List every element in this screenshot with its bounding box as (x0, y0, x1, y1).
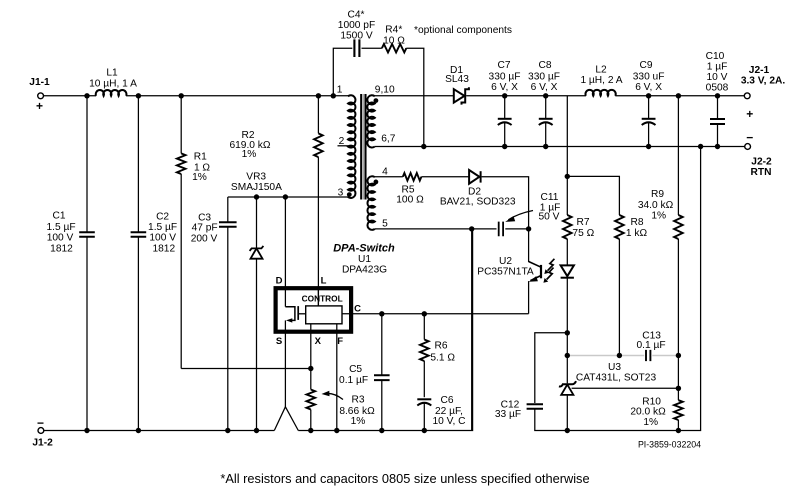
terminal J2-1 (741, 65, 786, 121)
capacitor C12 (495, 400, 567, 431)
phase dot pin 3 (347, 192, 352, 197)
transformer secondary winding pins 9-10 to 6-7 (367, 95, 374, 147)
junction pin3 D pin (283, 194, 288, 199)
junction U3 anode rail (565, 428, 570, 433)
junction C8 bottom (543, 144, 548, 149)
pin label L (321, 276, 327, 287)
junction R3 bottom (308, 428, 313, 433)
wire C pin (342, 313, 529, 315)
svg-text:5: 5 (382, 218, 388, 229)
terminal J1-2 (32, 416, 53, 449)
junction top rail R2 (316, 93, 321, 98)
svg-text:*optional components: *optional components (414, 25, 512, 36)
wire R8 branch (567, 176, 619, 215)
svg-text:C6: C6 (440, 395, 453, 406)
junction pin5 primary return (469, 226, 474, 231)
wire U3 ref (572, 387, 679, 389)
mosfet U1 internal (285, 306, 305, 332)
pin label X (315, 336, 322, 347)
capacitor C3 (191, 197, 237, 431)
svg-text:33 µF: 33 µF (495, 409, 521, 420)
capacitor C7 (489, 60, 521, 147)
wire R4 to 6-7 rail (406, 48, 424, 146)
wire primary ground rail left (44, 430, 274, 432)
transformer core (361, 94, 365, 200)
capacitor C8 (528, 60, 560, 147)
svg-text:SMAJ150A: SMAJ150A (231, 182, 282, 193)
svg-text:U1: U1 (358, 254, 371, 265)
wire R7 to opto LED (566, 239, 568, 265)
junction R9 C13 (676, 353, 681, 358)
junction R6 top (422, 311, 427, 316)
junction C9 bottom (646, 144, 651, 149)
svg-text:1.5 µF: 1.5 µF (46, 222, 75, 233)
svg-text:SL43: SL43 (445, 74, 469, 85)
svg-text:3: 3 (338, 187, 344, 198)
wire top rail J1-1 to L1 (44, 95, 97, 97)
svg-text:1000 pF: 1000 pF (338, 20, 375, 31)
wire S pin (284, 332, 286, 407)
opto light arrows (543, 259, 554, 283)
svg-text:VR3: VR3 (246, 171, 266, 182)
resistor R1 (177, 96, 211, 369)
svg-text:C8: C8 (538, 60, 551, 71)
svg-text:PI-3859-032204: PI-3859-032204 (638, 440, 701, 450)
pin label F (337, 336, 343, 347)
phase dot secondary (374, 98, 379, 103)
svg-text:3.3 V, 2A.: 3.3 V, 2A. (741, 76, 786, 87)
svg-text:C10: C10 (706, 51, 725, 62)
capacitor C5 (339, 314, 390, 431)
svg-text:X: X (315, 336, 322, 347)
svg-text:R9: R9 (651, 189, 664, 200)
svg-text:1812: 1812 (50, 243, 73, 254)
optocoupler U2 phototransistor (477, 229, 541, 314)
junction R8 bottom (617, 239, 622, 358)
wire F pin (336, 324, 338, 431)
svg-text:S: S (276, 336, 282, 347)
svg-text:C4*: C4* (348, 10, 365, 21)
junction pin3 VR3 (254, 194, 259, 199)
svg-text:1 kΩ: 1 kΩ (626, 228, 648, 239)
junction top rail R1 (179, 93, 184, 98)
svg-text:6 V, X: 6 V, X (531, 82, 558, 93)
svg-text:0.1 µF: 0.1 µF (636, 340, 665, 351)
resistor R8 (615, 215, 647, 239)
capacitor C13 (636, 330, 665, 361)
svg-text:C11: C11 (541, 192, 559, 203)
svg-text:10 V: 10 V (707, 72, 728, 83)
pin label D (276, 276, 283, 287)
svg-text:C: C (354, 304, 361, 315)
terminal J1-1 (29, 77, 50, 113)
control block U1 (302, 293, 343, 323)
svg-text:C5: C5 (349, 364, 362, 375)
svg-text:75 Ω: 75 Ω (572, 228, 594, 239)
svg-text:1%: 1% (242, 149, 257, 160)
svg-text:10 V, C: 10 V, C (432, 416, 465, 427)
resistor R4 (362, 25, 407, 53)
pin label 9,10 (375, 84, 395, 95)
svg-text:1500 V: 1500 V (340, 31, 372, 42)
wire X pin feed (181, 368, 311, 370)
svg-text:0508: 0508 (706, 82, 729, 93)
svg-text:J1-2: J1-2 (32, 438, 53, 449)
junction C12 node (565, 330, 570, 335)
svg-text:DPA-Switch: DPA-Switch (333, 243, 395, 255)
wire D2 to C11 node (482, 177, 529, 229)
junction C9 top (646, 93, 651, 98)
terminal J2-2 (745, 130, 772, 178)
svg-text:−: − (37, 416, 44, 430)
svg-text:D: D (276, 276, 283, 287)
resistor R7 (563, 176, 595, 239)
junction C11 D2 node (526, 226, 531, 231)
capacitor C2 (131, 96, 178, 431)
wire X pin (310, 324, 312, 369)
svg-text:C1: C1 (52, 211, 65, 222)
svg-text:1 µH, 2 A: 1 µH, 2 A (580, 75, 622, 86)
svg-text:47 pF: 47 pF (192, 223, 218, 234)
junction C10 bottom (715, 144, 720, 149)
svg-text:R4*: R4* (385, 25, 402, 36)
capacitor C11 (499, 192, 561, 236)
svg-text:100 Ω: 100 Ω (396, 195, 424, 206)
svg-text:1%: 1% (643, 417, 658, 428)
wire D pin (284, 197, 286, 307)
diode D1 SL43 (445, 65, 469, 105)
svg-text:C9: C9 (639, 60, 652, 71)
svg-text:R8: R8 (630, 217, 643, 228)
pin label 2 (338, 136, 349, 147)
junction C5 bottom (379, 428, 384, 433)
svg-text:L2: L2 (595, 65, 607, 76)
svg-text:100 V: 100 V (47, 233, 74, 244)
junction C1 bottom (84, 428, 89, 433)
svg-text:10 Ω: 10 Ω (383, 36, 405, 47)
wire secondary ground rail (567, 147, 700, 431)
svg-text:330 µF: 330 µF (489, 71, 521, 82)
wire U3 anode (566, 395, 568, 431)
capacitor C6 (417, 395, 465, 430)
pin label 5 (382, 218, 388, 229)
opto LED U2 (561, 265, 574, 277)
capacitor C1 (46, 96, 94, 431)
svg-text:6 V, X: 6 V, X (491, 82, 518, 93)
junction C5 top (379, 311, 384, 316)
resistor R5 (396, 173, 424, 206)
svg-text:J2-1: J2-1 (749, 65, 770, 76)
source return peak (274, 407, 298, 431)
svg-text:200 V: 200 V (191, 233, 218, 244)
svg-text:D2: D2 (468, 186, 481, 197)
note footer (220, 471, 589, 486)
resistor R6 (420, 314, 455, 397)
wire LED node to C13 node (566, 333, 568, 356)
svg-text:L: L (321, 276, 327, 287)
resistor R10 (630, 388, 682, 430)
svg-text:1: 1 (337, 84, 343, 95)
svg-text:330 µF: 330 µF (528, 71, 560, 82)
wire C13 link (567, 355, 678, 357)
junction top rail C2 (136, 93, 141, 98)
svg-text:R3: R3 (351, 394, 364, 405)
wire C13 node to U3 (566, 356, 568, 384)
wire pin 5 to C11 (375, 228, 497, 230)
junction X node (308, 366, 313, 371)
label PI number (638, 440, 701, 450)
svg-text:R5: R5 (401, 184, 414, 195)
wire bias return (471, 229, 473, 431)
svg-text:1 µF: 1 µF (707, 61, 728, 72)
svg-text:5.1 Ω: 5.1 Ω (430, 353, 455, 364)
svg-text:1812: 1812 (152, 243, 175, 254)
junction VR3 bottom (254, 428, 259, 433)
svg-text:R7: R7 (576, 217, 589, 228)
pin label S (276, 336, 282, 347)
junction top rail C4 branch (331, 93, 336, 98)
phase dot bias (374, 180, 379, 185)
note optional components (414, 25, 512, 36)
diode D2 BAV21 (440, 170, 516, 208)
svg-text:6 V, X: 6 V, X (635, 82, 662, 93)
junction RTN to feedback ground (698, 144, 703, 149)
wire pin3 node (228, 196, 349, 198)
capacitor C4 (333, 10, 375, 96)
svg-text:CONTROL: CONTROL (302, 293, 343, 303)
wire pin 4 to R5 (375, 176, 403, 178)
wire 6-7 rail (375, 146, 745, 148)
svg-text:0.1 µF: 0.1 µF (339, 375, 368, 386)
wire top rail L1 to transformer pin 1 (126, 95, 348, 97)
svg-text:R1: R1 (194, 152, 207, 163)
junction R10 bottom (676, 428, 681, 433)
shunt regulator U3 CAT431L (559, 362, 657, 395)
inductor L1 (89, 68, 137, 96)
svg-text:L1: L1 (106, 68, 118, 79)
svg-text:CAT431L, SOT23: CAT431L, SOT23 (576, 372, 657, 383)
svg-text:1%: 1% (192, 172, 207, 183)
pin label 4 (382, 166, 388, 177)
zener VR3 SMAJ150A (231, 171, 282, 430)
ic U1 DPA423G outline (276, 243, 395, 332)
junction ref R10 (676, 386, 681, 391)
svg-text:+: + (36, 99, 43, 113)
wire primary ground rail right (298, 229, 472, 431)
junction C10 top (715, 93, 720, 98)
pin label 1 (337, 84, 343, 95)
wire R5 to D2 (421, 176, 469, 178)
transformer primary winding pins 1-3 (348, 95, 355, 198)
svg-text:DPA423G: DPA423G (342, 265, 387, 276)
svg-text:+: + (746, 107, 753, 121)
svg-text:6,7: 6,7 (381, 134, 395, 145)
junction C7 top (502, 93, 507, 98)
svg-text:C7: C7 (497, 60, 510, 71)
inductor L2 (580, 65, 622, 96)
svg-text:R6: R6 (434, 340, 447, 351)
resistor R9 (638, 96, 683, 389)
junction F bottom (334, 428, 339, 433)
wire L2 to J2-1 (615, 95, 744, 97)
svg-text:F: F (337, 336, 343, 347)
junction R7 R8 node (565, 174, 570, 179)
svg-text:9,10: 9,10 (375, 84, 395, 95)
svg-text:J1-1: J1-1 (29, 77, 50, 88)
wire 9-10 to D1 (375, 95, 454, 97)
pin label 6,7 (381, 134, 395, 145)
wire opto LED to C12 node (566, 278, 568, 333)
svg-text:J2-2: J2-2 (751, 156, 772, 167)
junction C3 bottom (225, 428, 230, 433)
svg-text:4: 4 (382, 166, 388, 177)
wire L pin internal (317, 288, 319, 306)
wire C12 branch top (535, 333, 568, 403)
junction top rail C1 (84, 93, 89, 98)
junction R9 top (676, 93, 681, 98)
svg-text:50 V: 50 V (539, 212, 560, 223)
junction C13 left (565, 353, 570, 358)
svg-text:1%: 1% (351, 416, 366, 427)
wire D1 to L2 (466, 95, 586, 97)
pin label 3 (338, 187, 344, 198)
svg-text:1%: 1% (651, 211, 666, 222)
junction C8 top (543, 93, 548, 98)
resistor R3 (307, 369, 376, 431)
transformer bias winding pins 4-5 (367, 176, 374, 230)
svg-text:−: − (746, 130, 753, 144)
capacitor C10 (706, 51, 729, 147)
svg-text:*All resistors and capacitors: *All resistors and capacitors 0805 size … (220, 471, 589, 486)
svg-text:100 V: 100 V (149, 233, 176, 244)
wire output sense drop (566, 96, 568, 177)
junction C7 bottom (502, 144, 507, 149)
svg-text:BAV21, SOD323: BAV21, SOD323 (440, 197, 516, 208)
svg-text:1.5 µF: 1.5 µF (148, 222, 177, 233)
junction C2 bottom (136, 428, 141, 433)
svg-text:PC357N1TA: PC357N1TA (477, 266, 534, 277)
svg-text:RTN: RTN (751, 167, 772, 178)
junction C6 bottom (422, 428, 427, 433)
svg-text:10 µH, 1 A: 10 µH, 1 A (89, 79, 137, 90)
svg-text:330 uF: 330 uF (633, 71, 665, 82)
capacitor C9 (633, 60, 665, 147)
pin label C (354, 304, 361, 315)
junction 6-7 snubber return (421, 144, 426, 149)
svg-text:34.0 kΩ: 34.0 kΩ (638, 200, 674, 211)
resistor R2 (229, 96, 322, 306)
